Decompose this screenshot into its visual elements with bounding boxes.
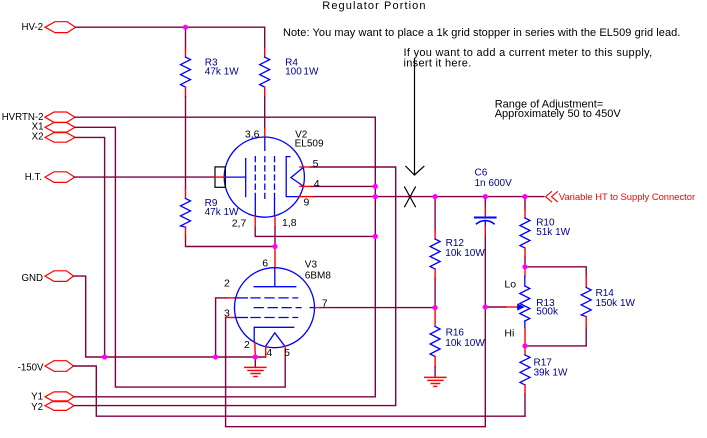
svg-text:39k 1W: 39k 1W <box>534 367 568 378</box>
node R12/R16/pin7 junction <box>433 305 438 310</box>
svg-text:Approximately 50 to 450V: Approximately 50 to 450V <box>495 108 622 120</box>
resistor R9 47k 1W <box>181 189 240 237</box>
terminal HVRTN-2 <box>2 112 75 123</box>
svg-text:3,6: 3,6 <box>245 128 260 140</box>
wire R10 bottom to Lo node <box>524 257 526 266</box>
svg-text:47k 1W: 47k 1W <box>205 207 239 218</box>
svg-text:150k 1W: 150k 1W <box>596 298 636 309</box>
svg-text:2: 2 <box>244 339 250 351</box>
svg-text:insert it here.: insert it here. <box>404 58 472 70</box>
node HV-2/R3 junction <box>183 25 188 30</box>
node Hi junction <box>522 343 527 348</box>
node R12 top junction <box>433 194 438 199</box>
svg-text:5: 5 <box>313 158 319 170</box>
wire X1 to V3 pin5 loop <box>75 127 285 387</box>
wire R14 bottom to Hi node <box>525 327 586 346</box>
tube V2 EL509 <box>215 128 324 229</box>
node C6 bottom wiper junction <box>483 304 488 309</box>
svg-text:7: 7 <box>322 298 328 310</box>
svg-text:Regulator Portion: Regulator Portion <box>322 0 426 12</box>
resistor R16 10k 10W <box>430 308 485 378</box>
annotation arrow down <box>406 59 424 175</box>
resistor R10 51k 1W <box>520 209 571 258</box>
terminal HV-2 <box>21 22 75 34</box>
wire V3 pin7 to R12/R16 node <box>321 307 436 309</box>
wire Y2 to V2 pin5 riser <box>74 167 396 406</box>
svg-text:6: 6 <box>262 257 268 269</box>
terminal H.T. <box>25 172 75 183</box>
svg-text:-150V: -150V <box>18 363 44 374</box>
svg-text:3: 3 <box>224 308 230 320</box>
svg-text:51k 1W: 51k 1W <box>536 227 570 238</box>
wire V3 pin2 to ground rail <box>216 298 228 357</box>
potentiometer R13 500k <box>506 267 559 346</box>
wire -150V rail vertical to R17 <box>524 394 526 416</box>
node V2 pin4 junction <box>373 184 378 189</box>
wire R12 bottom to node <box>434 278 436 308</box>
node C6 top junction <box>483 194 488 199</box>
wire Lo node to R14 top <box>525 267 586 277</box>
node cathode rail junction <box>373 234 378 239</box>
node R9/V3 plate junction <box>272 244 277 249</box>
ground below V3 cathode <box>245 357 266 377</box>
wire V2 cathode rail 2,7 to riser <box>255 227 375 237</box>
svg-text:1W: 1W <box>303 67 319 78</box>
svg-text:Variable HT to Supply Connecto: Variable HT to Supply Connector <box>559 191 695 202</box>
svg-text:4: 4 <box>314 178 320 190</box>
svg-text:2,7: 2,7 <box>232 217 247 229</box>
wire R12 top dark segment <box>434 197 436 230</box>
svg-text:10k 10W: 10k 10W <box>445 248 485 259</box>
node R10 top junction <box>522 194 527 199</box>
wire V2 pin4 to HVRTN riser <box>311 185 376 187</box>
wire HV-2 to R3/R4 tops <box>76 26 265 28</box>
svg-text:100: 100 <box>285 67 302 78</box>
svg-text:4: 4 <box>266 347 272 359</box>
svg-text:6BM8: 6BM8 <box>305 270 332 281</box>
resistor R4 100 1W <box>260 27 319 128</box>
wire HVRTN-2 right then down then to Y1 <box>74 117 375 397</box>
svg-text:1,8: 1,8 <box>282 217 297 229</box>
terminal Y1 <box>31 391 74 402</box>
resistor R12 10k 10W <box>430 230 485 278</box>
svg-text:5: 5 <box>284 347 290 359</box>
svg-text:Lo: Lo <box>504 278 516 290</box>
node main rail riser junction <box>373 194 378 199</box>
resistor R17 39k 1W <box>520 346 568 394</box>
wire H.T. to V2 grid box <box>75 176 215 178</box>
svg-text:R16: R16 <box>446 327 465 338</box>
node V3 pin2 ground rail junction <box>213 354 218 359</box>
svg-text:10k 10W: 10k 10W <box>445 338 485 349</box>
svg-text:2: 2 <box>224 277 230 289</box>
node V3 cathode ground rail junction <box>253 354 258 359</box>
wire R10 top dark segment <box>524 197 526 209</box>
svg-text:9: 9 <box>304 197 310 209</box>
terminal -150V <box>18 361 74 374</box>
svg-text:Y2: Y2 <box>31 402 43 413</box>
resistor R14 150k 1W <box>581 277 635 327</box>
svg-text:GND: GND <box>21 273 43 284</box>
svg-text:EL509: EL509 <box>295 138 324 149</box>
node Lo junction <box>522 264 527 269</box>
tube V3 6BM8 <box>224 247 331 360</box>
wire GND to ground rail <box>74 276 266 357</box>
resistor R3 47k 1W <box>181 27 240 189</box>
svg-text:Hi: Hi <box>504 327 514 339</box>
svg-text:Y1: Y1 <box>31 391 43 402</box>
terminal GND <box>21 271 73 284</box>
terminal X2 <box>32 131 75 142</box>
node X2 ground rail junction <box>102 354 107 359</box>
svg-text:Note: You may want to place a: Note: You may want to place a 1k grid st… <box>283 27 680 39</box>
terminal X1 <box>32 122 75 133</box>
wire X2 down to GND rail <box>75 137 105 357</box>
wire V3 pin3 grid loop to divider node <box>226 235 486 427</box>
wire -150V down and right to R17 bottom <box>74 366 526 416</box>
wire divider node to R13 wiper <box>485 306 505 308</box>
output chevrons <box>546 192 558 202</box>
terminal Y2 <box>31 401 74 413</box>
wire main output rail <box>314 196 544 198</box>
wire V2 1,8 down to V3 plate node <box>274 227 276 247</box>
svg-text:47k 1W: 47k 1W <box>205 67 239 78</box>
ground below R16 <box>425 377 446 386</box>
svg-text:H.T.: H.T. <box>25 172 42 183</box>
meter insertion X marker <box>405 187 416 207</box>
wire R9 bottom to V3 plate node <box>186 236 276 246</box>
svg-text:500k: 500k <box>536 306 559 317</box>
svg-text:V3: V3 <box>305 259 318 270</box>
svg-text:1n 600V: 1n 600V <box>475 178 513 189</box>
svg-text:HV-2: HV-2 <box>21 22 43 33</box>
capacitor C6 1n 600V <box>475 168 513 236</box>
svg-text:X2: X2 <box>32 131 44 142</box>
